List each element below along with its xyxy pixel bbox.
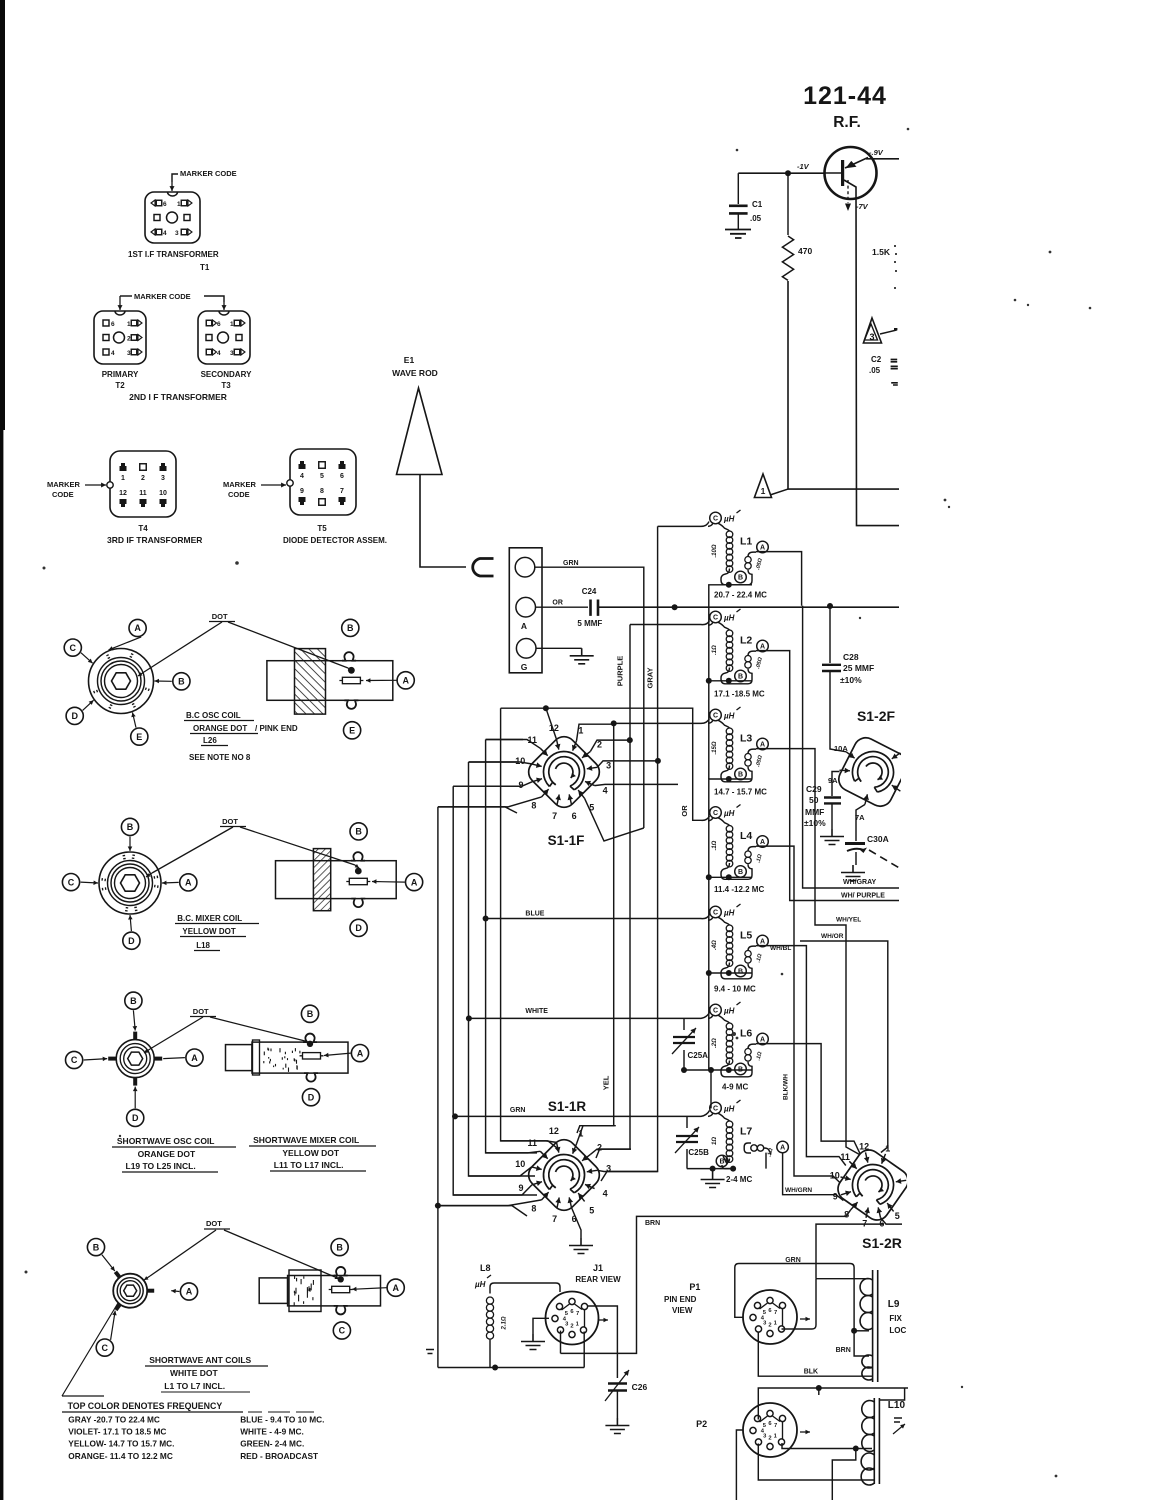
page cut (right edge of scan) [901,0,1160,1500]
svg-text:1: 1 [885,1143,890,1153]
wire GRN from strip [535,567,644,828]
svg-text:T4: T4 [138,524,148,533]
svg-text:1Ω: 1Ω [712,1137,718,1145]
svg-text:FIX: FIX [889,1314,902,1323]
note marker triangle 3 [863,318,881,343]
wire BLUE: to L5.C [486,915,710,919]
svg-text:L8: L8 [480,1263,491,1273]
svg-text:WAVE ROD: WAVE ROD [392,368,438,378]
svg-text:11: 11 [139,490,147,497]
wire WHITE: to L6.C via C25A [469,1013,710,1019]
svg-text:14.7 - 15.7 MC: 14.7 - 15.7 MC [714,788,767,797]
svg-text:4: 4 [300,473,304,480]
svg-text:.05: .05 [750,214,762,223]
svg-text:LOC: LOC [889,1326,906,1335]
svg-text:G: G [521,662,528,672]
wire GRAY: L1.C to S1-1R contact 3 [601,522,709,1182]
svg-text:9A: 9A [828,776,838,785]
svg-text:4-9 MC: 4-9 MC [722,1083,748,1092]
S1-2R contact 6 wire to L9 [881,1218,903,1225]
svg-text:C: C [71,1055,78,1065]
wire PURPLE: L2.C to S1-1R contact 2 [596,621,710,1159]
svg-text:11.4 -12.2 MC: 11.4 -12.2 MC [714,885,764,894]
svg-text:CODE: CODE [228,490,250,499]
svg-text:L26: L26 [203,736,217,745]
svg-text:RED - BROADCAST: RED - BROADCAST [240,1451,318,1461]
svg-text:6: 6 [111,321,115,328]
J1 bottom pins wires [560,1331,562,1354]
svg-text:C: C [713,615,718,622]
wire L3.A / WH YEL to S1-2R.12 [756,749,860,1155]
BC mixer coil L18 end view [99,852,161,914]
svg-text:2: 2 [570,1324,573,1330]
coil L6 [710,1004,722,1016]
svg-text:µH: µH [723,515,735,524]
svg-text:C26: C26 [632,1382,648,1392]
S1-1R contact wires [577,1126,616,1144]
svg-text:A: A [760,644,765,651]
svg-text:7: 7 [774,1310,777,1316]
svg-text:S1-2R: S1-2R [862,1235,902,1251]
svg-text:µH: µH [723,909,735,918]
wire BLK P1.3 to L9 bottom [758,1332,872,1376]
svg-text:1: 1 [761,486,766,496]
svg-text:C: C [713,910,718,917]
svg-text:5: 5 [895,1211,900,1221]
svg-text:4: 4 [603,785,608,795]
svg-text:2: 2 [141,475,145,482]
svg-text:A: A [760,742,765,749]
J1 pin4 ground [533,1318,549,1334]
svg-text:/ PINK END: / PINK END [255,724,298,733]
P1 pin1 wire to L9 [782,1279,817,1329]
P2 lower wires [782,1443,872,1449]
svg-text:C: C [68,877,75,887]
svg-text:A: A [357,1048,364,1058]
trimmer capacitor C25B [686,1116,688,1128]
svg-text:25 MMF: 25 MMF [843,663,874,673]
svg-text:3: 3 [161,475,165,482]
emitter voltage dashed arrow [847,180,849,203]
wire BRN to L9 tap [854,1290,869,1356]
dashed leader [869,850,901,869]
svg-text:WHITE DOT: WHITE DOT [170,1368,218,1378]
capacitor C1 [737,173,739,204]
coil L2 [710,611,722,623]
shortwave ant coil end view [113,1274,147,1308]
svg-text:C24: C24 [582,587,597,596]
svg-text:BRN: BRN [645,1220,660,1227]
svg-text:1: 1 [121,475,125,482]
svg-text:C: C [70,643,77,653]
svg-text:B: B [178,677,185,687]
svg-text:10: 10 [515,756,525,766]
svg-text:3RD IF TRANSFORMER: 3RD IF TRANSFORMER [107,535,202,545]
rotary switch S1-1F [524,732,605,813]
svg-text:C: C [102,1343,109,1353]
svg-text:DOT: DOT [222,817,238,826]
svg-text:D: D [132,1113,139,1123]
svg-text:.2Ω: .2Ω [712,1038,718,1048]
svg-text:B: B [719,1159,724,1166]
coil L1 [710,512,722,524]
svg-text:-1V: -1V [797,162,810,171]
wire L2.A / WH PURPLE [756,651,899,901]
svg-text:.4Ω: .4Ω [712,940,718,950]
svg-text:B: B [738,674,743,681]
coil L5 [710,906,722,918]
capacitor C30A (trimmer) [856,805,865,842]
svg-text:9: 9 [833,1192,838,1202]
left wire bundle [486,740,537,1153]
antenna common line node [598,606,899,608]
svg-text:.10Ω: .10Ω [712,544,718,557]
L18 terminals [121,818,138,835]
svg-text:10: 10 [830,1170,840,1180]
svg-text:9: 9 [518,1183,523,1193]
wire to L10 top [880,1388,905,1400]
svg-text:3: 3 [869,332,874,342]
svg-text:C: C [339,1326,346,1336]
terminal strip [509,548,542,673]
svg-text:.1Ω: .1Ω [712,645,718,655]
svg-text:5: 5 [320,473,324,480]
svg-text:J1: J1 [593,1263,603,1273]
svg-text:WH/GRN: WH/GRN [785,1187,812,1194]
svg-text:B: B [93,1242,100,1252]
svg-text:A: A [521,621,527,631]
svg-text:YELLOW- 14.7 TO 15.7 MC.: YELLOW- 14.7 TO 15.7 MC. [68,1439,174,1449]
svg-text:A: A [760,839,765,846]
svg-text:P1: P1 [689,1282,700,1292]
svg-text:A: A [191,1053,198,1063]
svg-text:8: 8 [531,1203,536,1213]
svg-text:L10: L10 [888,1400,906,1411]
svg-text:L18: L18 [196,941,210,950]
svg-text:B: B [738,772,743,779]
svg-text:µH: µH [474,1280,486,1289]
svg-text:SHORTWAVE MIXER COIL: SHORTWAVE MIXER COIL [253,1135,359,1145]
svg-text:A: A [780,1145,785,1152]
svg-text:470: 470 [798,246,812,256]
BC osc coil L26 end view [89,649,154,714]
svg-text:TOP COLOR DENOTES FREQUENCY: TOP COLOR DENOTES FREQUENCY [68,1401,223,1411]
wire L6.A / BLK WH down to S1-2R.12 line [756,1044,860,1154]
svg-text:GRAY -20.7 TO 22.4 MC: GRAY -20.7 TO 22.4 MC [68,1415,160,1425]
wire WH OR to S1-2R.1 [800,941,888,1153]
svg-text:2: 2 [768,1436,771,1442]
svg-text:µH: µH [723,1007,735,1016]
wire WH/GRAY [803,606,899,888]
svg-text:µH: µH [723,809,735,818]
svg-text:4: 4 [603,1188,608,1198]
svg-text:12: 12 [119,490,127,497]
coil L7 [710,1102,722,1114]
svg-text:L19 TO L25 INCL.: L19 TO L25 INCL. [126,1161,196,1171]
svg-text:B: B [347,623,354,633]
svg-text:GRN: GRN [785,1257,801,1264]
svg-text:A: A [411,877,418,887]
P2 wires [736,1430,743,1500]
L10 slug arrow [894,1418,902,1422]
svg-text:GRN: GRN [563,560,579,567]
coil L3 [710,709,722,721]
svg-text:P2: P2 [696,1419,707,1429]
svg-text:L1: L1 [740,536,752,548]
trimmer capacitor C25A [683,1018,685,1030]
svg-text:BRN: BRN [836,1347,851,1354]
svg-text:L9: L9 [888,1299,900,1310]
resistor 470 [787,173,789,235]
svg-text:C: C [713,810,718,817]
svg-text:D: D [128,936,135,946]
svg-text:WH/YEL: WH/YEL [836,917,861,924]
svg-text:ORANGE DOT: ORANGE DOT [138,1149,196,1159]
svg-text:-7V: -7V [856,202,869,211]
trimmer capacitor C26 [608,1384,627,1391]
svg-text:A: A [402,676,409,686]
svg-text:WH/ PURPLE: WH/ PURPLE [841,893,885,900]
svg-text:L5: L5 [740,930,752,942]
svg-text:±10%: ±10% [804,818,826,828]
transistor Q1 RF [825,147,877,199]
shortwave osc terminals [125,992,142,1009]
svg-text:SEE NOTE NO 8: SEE NOTE NO 8 [189,753,251,762]
svg-text:DOT: DOT [206,1219,222,1228]
L26 terminals [129,619,146,636]
svg-text:3: 3 [127,350,131,357]
svg-text:T3: T3 [221,381,231,390]
rotary switch S1-2F [835,734,912,811]
rotary switch S1-2R [833,1145,912,1224]
diode detector T5 box [290,449,356,515]
svg-text:GREEN- 2-4 MC.: GREEN- 2-4 MC. [240,1439,304,1449]
svg-text:1: 1 [127,321,131,328]
svg-text:C1: C1 [752,200,763,209]
svg-text:PURPLE: PURPLE [616,656,625,686]
svg-text:12: 12 [549,1126,559,1136]
svg-text:L3: L3 [740,733,752,745]
svg-text:20.7 - 22.4 MC: 20.7 - 22.4 MC [714,591,767,600]
svg-text:YELLOW DOT: YELLOW DOT [182,927,235,936]
wire L7.A / WH GRN to S1-2R.9 [783,1153,844,1201]
svg-text:T1: T1 [200,263,210,272]
svg-text:-.9V: -.9V [869,148,884,157]
svg-text:L6: L6 [740,1028,752,1040]
svg-text:5 MMF: 5 MMF [577,619,602,628]
svg-text:C: C [713,713,718,720]
svg-text:A: A [134,623,141,633]
svg-text:B: B [738,575,743,582]
svg-text:DIODE DETECTOR ASSEM.: DIODE DETECTOR ASSEM. [283,536,387,545]
wire OR: S1-1F.12 line to L4.C [501,708,710,820]
svg-text:GRN: GRN [510,1107,526,1114]
svg-text:C25B: C25B [688,1148,709,1157]
svg-text:C28: C28 [843,652,859,662]
svg-text:WH/BL: WH/BL [770,945,791,952]
svg-text:E: E [349,726,355,736]
svg-text:T2: T2 [115,381,125,390]
svg-text:2: 2 [597,1142,602,1152]
svg-text:L2: L2 [740,635,752,647]
svg-text:S1-1F: S1-1F [548,833,585,848]
svg-text:B: B [738,969,743,976]
svg-text:1: 1 [177,201,181,208]
svg-text:WHITE: WHITE [525,1008,548,1015]
svg-text:ORANGE DOT: ORANGE DOT [193,724,247,733]
svg-text:8: 8 [320,488,324,495]
L18 side view [276,861,397,899]
svg-text:D: D [71,711,78,721]
svg-text:4: 4 [217,350,221,357]
svg-text:C29: C29 [806,784,822,794]
svg-text:VIEW: VIEW [672,1306,693,1315]
svg-text:BLK: BLK [804,1369,818,1376]
capacitor C28 [829,606,831,663]
svg-text:C: C [713,516,718,523]
svg-text:WHITE - 4-9 MC.: WHITE - 4-9 MC. [240,1427,304,1437]
L7 ground [687,1153,766,1172]
svg-text:B: B [336,1242,343,1252]
svg-text:6: 6 [163,201,167,208]
svg-text:1.5K: 1.5K [872,247,891,257]
svg-text:SHORTWAVE ANT COILS: SHORTWAVE ANT COILS [149,1355,251,1365]
coil L4 [710,807,722,819]
svg-text:MMF: MMF [805,807,824,817]
svg-text:B: B [307,1009,314,1019]
L26 side view [267,661,393,701]
capacitor C29 [832,772,840,797]
svg-text:8: 8 [531,800,536,810]
page edge bar [0,0,5,430]
svg-text:4: 4 [111,350,115,357]
svg-text:BLUE: BLUE [525,911,544,918]
svg-text:6: 6 [572,811,577,821]
svg-text:MARKER: MARKER [47,480,80,489]
svg-text:.05: .05 [869,366,881,375]
wire L4.A down to S1-2R.10 [756,846,840,1182]
svg-text:C2: C2 [871,355,882,364]
svg-text:S1-2F: S1-2F [857,708,896,724]
1st IF transformer T1 box [145,192,200,243]
svg-text:MARKER CODE: MARKER CODE [134,292,191,301]
svg-text:L11 TO L17 INCL.: L11 TO L17 INCL. [274,1160,344,1170]
3rd IF transformer T4 box [110,451,176,517]
svg-text:6: 6 [340,473,344,480]
svg-text:2: 2 [768,1323,771,1329]
svg-text:11: 11 [527,1138,537,1148]
svg-text:5: 5 [589,1206,594,1216]
svg-text:A: A [760,545,765,552]
svg-text:7: 7 [340,488,344,495]
svg-text:B: B [738,869,743,876]
svg-text:T5: T5 [317,524,327,533]
svg-text:B.C. MIXER COIL: B.C. MIXER COIL [177,914,242,923]
svg-text:B: B [355,827,362,837]
L26 side terminals [342,619,359,636]
svg-text:7: 7 [576,1311,579,1317]
svg-text:.1Ω: .1Ω [712,840,718,850]
svg-text:1ST I.F TRANSFORMER: 1ST I.F TRANSFORMER [128,250,219,259]
svg-text:2-4 MC: 2-4 MC [726,1175,752,1184]
svg-text:SECONDARY: SECONDARY [201,370,252,379]
svg-text:S1-1R: S1-1R [548,1099,587,1114]
svg-text:OR: OR [680,805,689,817]
svg-text:9: 9 [300,488,304,495]
shortwave osc side view [252,1042,348,1073]
svg-text:D: D [355,923,362,933]
svg-text:E1: E1 [404,355,415,365]
svg-text:3: 3 [230,350,234,357]
svg-text:A: A [185,878,192,888]
svg-text:A: A [186,1287,193,1297]
ground from strip G [536,647,582,649]
S1-1R ground at contact 6 [572,1208,582,1238]
svg-text:C25A: C25A [688,1051,709,1060]
svg-text:YEL: YEL [602,1075,611,1090]
svg-text:DOT: DOT [193,1007,209,1016]
svg-text:17.1 -18.5 MC: 17.1 -18.5 MC [714,690,765,699]
svg-text:WH/GRAY: WH/GRAY [843,879,877,886]
svg-text:7: 7 [552,811,557,821]
wire GRN: to L7.C via C25B [455,1111,710,1117]
svg-text:µH: µH [723,614,735,623]
note marker triangle 1 [754,474,771,498]
svg-text:PRIMARY: PRIMARY [102,370,139,379]
svg-text:YELLOW DOT: YELLOW DOT [282,1148,339,1158]
svg-text:50: 50 [809,795,819,805]
svg-text:OR: OR [552,600,563,607]
svg-text:ORANGE- 11.4 TO 12.2 MC: ORANGE- 11.4 TO 12.2 MC [68,1451,173,1461]
wire GRN P1 [735,1264,854,1318]
svg-text:REAR VIEW: REAR VIEW [575,1275,621,1284]
wire BRN from S1-2R.8 to J1 [561,1210,851,1354]
svg-text:2ND I F TRANSFORMER: 2ND I F TRANSFORMER [129,392,227,402]
svg-text:±10%: ±10% [840,675,862,685]
svg-text:BLUE - 9.4 TO 10 MC.: BLUE - 9.4 TO 10 MC. [240,1415,324,1425]
node L8/J1 [492,1365,498,1371]
svg-text:10: 10 [515,1159,525,1169]
svg-text:B: B [127,822,134,832]
svg-text:6: 6 [217,321,221,328]
svg-text:A: A [760,1037,765,1044]
svg-text:µH: µH [723,1105,735,1114]
leader to legend [62,1303,118,1396]
T3 box (secondary) [198,311,250,364]
wire YEL: L3.C to S1-1R contact 1 [577,719,710,1134]
svg-text:B: B [130,996,137,1006]
svg-text:.15Ω: .15Ω [712,741,718,754]
svg-text:10: 10 [159,490,167,497]
svg-text:2.1Ω: 2.1Ω [502,1316,508,1330]
svg-text:A: A [392,1283,399,1293]
svg-text:3: 3 [175,230,179,237]
svg-text:1: 1 [230,321,234,328]
rotary switch S1-1R [524,1135,605,1216]
J1 pin7 to C26 [588,1306,617,1378]
svg-text:7: 7 [552,1214,557,1224]
svg-text:L7: L7 [740,1126,752,1138]
svg-text:µH: µH [723,712,735,721]
svg-text:L4: L4 [740,830,752,842]
svg-text:B.C OSC COIL: B.C OSC COIL [186,711,241,720]
svg-text:E: E [136,732,142,742]
wire L1.A down to common line [756,552,802,606]
svg-text:L1 TO L7 INCL.: L1 TO L7 INCL. [164,1381,225,1391]
coil B bus wires [709,585,752,681]
shortwave osc coil end view [116,1040,154,1078]
2nd IF transformer T2 box (primary) [94,311,146,364]
